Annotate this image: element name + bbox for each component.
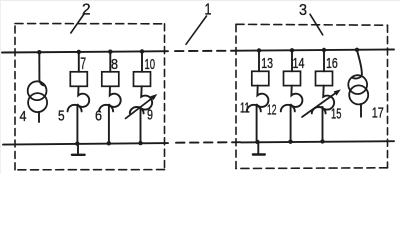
svg-text:9: 9: [147, 107, 153, 124]
svg-text:16: 16: [326, 55, 338, 72]
wire: branch drop to box 8: [109, 52, 111, 72]
transformer T4 winding circles: [28, 81, 47, 100]
box 10 (relay): [134, 72, 151, 87]
svg-text:17: 17: [372, 105, 384, 122]
junction dot top bus / T4: [37, 50, 41, 54]
leader line for label 1: [186, 16, 207, 44]
transformer T17 bottom stub wire: [360, 104, 362, 117]
wire: branch drop to box 7: [78, 52, 80, 72]
transformer T4 bottom stub wire: [38, 112, 40, 122]
wire: hook 9 lower lead to bottom bus: [140, 107, 142, 143]
junction dot bottom bus / hook 6: [107, 141, 111, 145]
junction dot top bus / box 10: [140, 49, 144, 53]
junction dot top bus / box 8: [108, 50, 112, 54]
svg-text:4: 4: [20, 108, 27, 125]
wire: top busbar dashed tie segment (node 1): [175, 50, 238, 52]
box 7 (relay): [70, 72, 87, 87]
arrow of variable element 9: [126, 96, 155, 118]
arrowhead of variable element 9: [150, 94, 157, 100]
enclosure box 3 (dashed): [236, 24, 388, 168]
wire: bottom busbar solid right segment: [241, 141, 394, 142]
ground symbol right: [257, 142, 259, 154]
enclosure box 2 (dashed): [15, 24, 165, 170]
svg-text:3: 3: [299, 2, 307, 19]
current transformer hook 5: [78, 86, 90, 107]
junction dot top bus / box 7: [77, 50, 81, 54]
transformer T17 top lead wire with curl: [353, 50, 362, 79]
junction dot bottom bus / hook 15: [320, 139, 324, 143]
transformer T4 top lead wire with curl: [39, 52, 45, 85]
wire: hook 6 lower lead to bottom bus: [108, 105, 110, 144]
svg-text:11: 11: [240, 99, 250, 116]
junction dot top bus / box 14: [290, 48, 294, 52]
svg-text:2: 2: [82, 2, 91, 19]
junction dot bottom bus / hook 11: [255, 140, 259, 144]
svg-text:8: 8: [111, 56, 118, 73]
wire: bottom busbar solid left segment: [3, 143, 168, 145]
leader line for label 2: [71, 14, 84, 33]
current transformer hook 6: [109, 86, 121, 107]
box 14 (relay): [284, 71, 301, 85]
current transformer hook 11: [257, 86, 269, 107]
svg-text:13: 13: [261, 55, 273, 72]
wire: branch drop to box 14: [291, 50, 293, 71]
junction dot bottom bus / hook 12: [288, 140, 292, 144]
svg-text:15: 15: [331, 105, 341, 122]
wire: hook 5 lower lead to bottom bus: [76, 105, 78, 144]
ground symbol left: [77, 144, 79, 155]
svg-text:12: 12: [267, 102, 277, 119]
arrowhead of variable element 15: [334, 89, 341, 95]
current transformer hook 12: [291, 86, 303, 107]
junction dot top bus / box 16: [322, 48, 326, 52]
variable current transformer hook 9: [140, 86, 152, 109]
wire: top busbar solid right segment: [238, 50, 394, 51]
wire: branch drop to box 16: [323, 50, 325, 71]
box 8 (relay): [102, 72, 119, 87]
wire: hook 12 lower lead to bottom bus: [290, 105, 292, 142]
svg-text:14: 14: [293, 55, 305, 72]
svg-text:5: 5: [58, 107, 65, 124]
wire: bottom busbar dashed tie segment: [176, 141, 241, 144]
wire: hook 11 lower lead to bottom bus: [256, 105, 258, 142]
variable current transformer hook 15: [322, 86, 334, 110]
junction dot bottom bus / hook 5: [75, 141, 79, 145]
leader line for label 3: [310, 14, 323, 35]
svg-text:1: 1: [205, 2, 212, 19]
svg-text:10: 10: [145, 56, 156, 73]
box 13 (relay): [252, 71, 269, 85]
junction dot top bus / box 13: [257, 48, 261, 52]
wire: top busbar solid left segment: [2, 51, 168, 52]
wire: branch drop to box 13: [258, 51, 260, 72]
svg-text:7: 7: [80, 54, 86, 73]
wire: hook 15 lower lead to bottom bus: [322, 107, 324, 141]
junction dot bottom bus / hook 9: [138, 141, 142, 145]
junction dot top bus / T17: [355, 48, 359, 52]
wire: branch drop to box 10: [141, 51, 143, 71]
box 16 (relay): [316, 71, 333, 85]
arrow of variable element 15: [302, 92, 338, 118]
svg-text:6: 6: [95, 107, 102, 124]
transformer T17 winding circles: [348, 75, 367, 94]
